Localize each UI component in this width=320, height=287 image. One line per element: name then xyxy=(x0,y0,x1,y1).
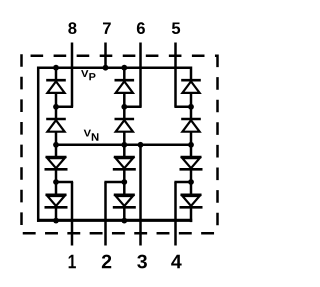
pin number 1 xyxy=(69,255,76,268)
junction bottom-col1 xyxy=(53,218,59,224)
diode D11 (VN to pin4), column 3 row 3 xyxy=(180,144,203,183)
wire pin 1 lead xyxy=(71,182,74,246)
wire pin 1 jog xyxy=(56,181,73,184)
pin number 4 xyxy=(171,255,181,268)
pin number 3 xyxy=(137,255,147,269)
junction VN-col2 xyxy=(121,142,127,148)
diode D5 (pin6 to VP), column 2 row 1 xyxy=(115,67,135,109)
junction node pin1 xyxy=(53,179,59,185)
diode D9 (pin5 to VP), column 3 row 1 xyxy=(181,67,201,109)
junction VN-col1 xyxy=(53,142,59,148)
junction node pin5 xyxy=(188,104,194,110)
junction node pin8 xyxy=(53,104,59,110)
package outline (dashed) top edge xyxy=(22,54,219,57)
wire pin 4 jog xyxy=(174,181,191,184)
diode D7 (VN to pin2), column 2 row 3 xyxy=(113,144,136,183)
junction bottom-col2 xyxy=(121,218,127,224)
pin number 7 xyxy=(103,22,111,33)
diode D8 (pin2 to bottom bus), column 2 row 4 xyxy=(113,181,136,222)
label VP subscript P xyxy=(89,73,95,80)
wire pin 8 jog xyxy=(56,106,73,109)
diode D12 (pin4 to bottom bus), column 3 row 4 xyxy=(180,181,203,222)
junction VN-pin3 xyxy=(138,142,144,148)
bottom bus wire xyxy=(37,219,192,222)
junction VP-pin7 xyxy=(103,65,109,71)
wire pin 3 lead xyxy=(139,145,142,246)
wire pin 6 jog xyxy=(124,106,141,109)
package outline (dashed) left edge xyxy=(20,54,23,234)
pin number 5 xyxy=(172,22,180,34)
package outline (dashed) bottom edge xyxy=(20,232,218,235)
label VP letter V xyxy=(81,70,88,77)
junction VP-col1 xyxy=(53,65,59,71)
pin number 8 xyxy=(68,22,76,34)
wire pin 8 lead xyxy=(71,43,74,107)
wire pin 5 lead xyxy=(174,43,177,107)
diode D4 (pin1 to bottom bus), column 1 row 4 xyxy=(45,181,68,222)
wire pin 2 jog xyxy=(104,181,124,184)
package outline (dashed) right edge xyxy=(216,55,219,235)
VN rail (middle bus wire) xyxy=(56,144,191,147)
junction VN-col3 xyxy=(188,142,194,148)
diode D1 (pin8 to VP), column 1 row 1 xyxy=(46,67,66,109)
wire left bus edge xyxy=(37,67,40,222)
label VN subscript N xyxy=(92,133,99,140)
junction node pin6 xyxy=(121,104,127,110)
diode D2 (VN to pin8), column 1 row 2 xyxy=(46,106,66,146)
junction node pin2 xyxy=(121,179,127,185)
pin number 6 xyxy=(137,22,145,34)
diode D6 (VN to pin6), column 2 row 2 xyxy=(115,106,135,146)
junction node pin4 xyxy=(188,179,194,185)
diode D3 (VN to pin1), column 1 row 3 xyxy=(45,144,68,183)
wire pin 6 lead xyxy=(139,43,142,107)
wire pin 2 lead xyxy=(104,182,107,246)
junction VP-col2 xyxy=(121,65,127,71)
wire pin 7 lead xyxy=(104,43,107,68)
wire pin 5 jog xyxy=(174,106,191,109)
pin number 2 xyxy=(102,255,111,269)
diode D10 (VN to pin5), column 3 row 2 xyxy=(181,106,201,146)
wire pin 4 lead xyxy=(174,182,177,246)
VP rail (top bus wire) xyxy=(37,66,191,69)
label VN letter V xyxy=(84,130,91,137)
